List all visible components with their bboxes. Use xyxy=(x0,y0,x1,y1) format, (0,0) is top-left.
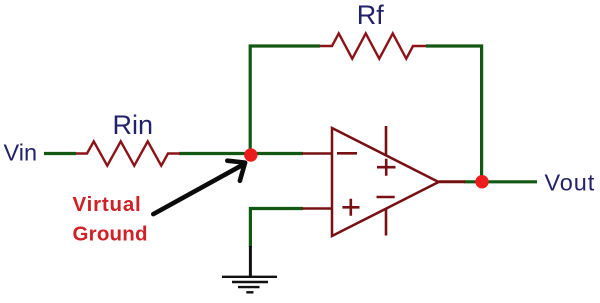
svg-text:Virtual: Virtual xyxy=(73,193,142,216)
op-amp U1 triangle xyxy=(332,128,439,236)
wire feedback right (Rf to output node) xyxy=(426,46,482,182)
node virtual ground dot xyxy=(244,148,257,161)
ground bar 4 xyxy=(246,291,253,293)
op-amp inverting input minus sign xyxy=(337,152,357,155)
wire Vin to Rin xyxy=(44,152,76,155)
op-amp V+ power pin xyxy=(385,126,388,156)
node output dot xyxy=(475,175,488,188)
wire output to Vout xyxy=(464,180,537,183)
svg-text:Vout: Vout xyxy=(545,170,596,196)
op-amp non-inverting input stub xyxy=(302,207,332,210)
op-amp inverting input stub xyxy=(302,152,332,155)
wire Rin to node and op-amp xyxy=(179,152,303,155)
arrow head xyxy=(227,161,245,181)
ground lead black xyxy=(249,246,252,277)
op-amp V- power pin xyxy=(385,209,388,236)
wire non-inverting input to ground xyxy=(250,209,303,248)
svg-text:Rin: Rin xyxy=(113,110,154,140)
ground bar 1 xyxy=(222,276,277,278)
op-amp V+ plus sign xyxy=(377,159,396,176)
ground bar 3 xyxy=(238,286,260,288)
ground bar 2 xyxy=(232,281,268,283)
arrow shaft xyxy=(153,165,243,214)
op-amp V- minus sign xyxy=(377,196,395,199)
wire feedback left (node up, right to Rf) xyxy=(250,46,320,155)
resistor Rf xyxy=(320,33,426,58)
svg-text:Vin: Vin xyxy=(4,140,38,166)
op-amp output stub xyxy=(439,180,465,183)
op-amp non-inverting input plus sign xyxy=(342,199,359,216)
svg-text:Ground: Ground xyxy=(73,223,148,246)
svg-text:Rf: Rf xyxy=(357,0,384,30)
resistor Rin xyxy=(76,141,180,165)
